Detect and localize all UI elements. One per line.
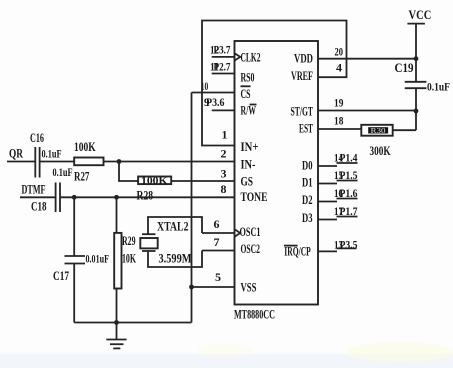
resistor R29 10K <box>114 233 136 289</box>
svg-text:GS: GS <box>241 174 254 189</box>
svg-text:3: 3 <box>221 167 227 181</box>
wire QR input to C16 <box>7 161 35 163</box>
node junction VSS <box>189 285 194 290</box>
wire C17 to ground rail <box>73 264 75 323</box>
wire RS0 stub P2.7 <box>212 73 235 75</box>
svg-text:CLK2: CLK2 <box>241 49 261 64</box>
svg-text:D2: D2 <box>302 192 313 207</box>
VCC power symbol <box>407 7 431 82</box>
svg-text:D1: D1 <box>302 175 313 190</box>
wire IN+ bias loop to VREF <box>202 21 347 146</box>
svg-text:C16: C16 <box>30 130 44 145</box>
wire D3 stub P1.7 <box>318 219 337 221</box>
node junction rail/ground <box>114 320 119 325</box>
svg-text:R28: R28 <box>137 188 154 203</box>
svg-text:OSC2: OSC2 <box>241 241 261 256</box>
svg-text:R29: R29 <box>122 233 136 248</box>
svg-text:D0: D0 <box>302 158 313 173</box>
wire DTMF input to C18 <box>20 196 56 198</box>
svg-text:EST: EST <box>299 121 313 136</box>
svg-text:CS: CS <box>241 86 251 101</box>
wire R30 to ST/GT vertical <box>393 129 416 131</box>
svg-text:19: 19 <box>334 96 343 110</box>
svg-text:7: 7 <box>214 235 220 249</box>
capacitor C18 <box>31 165 73 214</box>
op-amp U1 MT8880CC IC body <box>235 41 319 305</box>
wire IRQ/CP stub P3.5 <box>318 250 337 252</box>
wire R28 to GS pin 3 <box>171 180 234 182</box>
crystal XTAL2 3.599M <box>140 219 191 266</box>
svg-text:8: 8 <box>221 182 227 196</box>
svg-text:10K: 10K <box>122 251 137 266</box>
svg-text:0.1uF: 0.1uF <box>42 147 62 161</box>
svg-text:300K: 300K <box>370 143 392 158</box>
svg-text:P1.5: P1.5 <box>340 168 358 182</box>
wire C19 down to ST/GT node <box>415 88 417 130</box>
svg-text:OSC1: OSC1 <box>240 224 261 239</box>
svg-text:P3.7: P3.7 <box>214 43 231 57</box>
wire D1 stub P1.5 <box>318 183 337 185</box>
wire D2 stub P1.6 <box>318 201 337 203</box>
svg-text:100K: 100K <box>141 176 168 187</box>
wire VDD pin 20 to VCC <box>318 58 416 60</box>
svg-text:5: 5 <box>215 270 221 284</box>
svg-text:TONE: TONE <box>241 189 268 204</box>
ground <box>106 323 126 349</box>
wire R/W stub P3.6 <box>212 109 235 111</box>
svg-text:R27: R27 <box>74 169 90 184</box>
node junction VDD/VCC <box>414 56 419 61</box>
svg-text:P1.4: P1.4 <box>340 151 358 165</box>
svg-text:MT8880CC: MT8880CC <box>234 307 275 322</box>
node junction IN-/R28 <box>117 159 122 164</box>
svg-text:0.1uF: 0.1uF <box>53 165 73 179</box>
wire EST pin 18 to R30 <box>318 128 361 130</box>
svg-text:P1.7: P1.7 <box>340 204 358 218</box>
svg-text:XTAL2: XTAL2 <box>157 219 189 234</box>
node junction TONE/C17 <box>72 195 77 200</box>
svg-text:6: 6 <box>214 217 220 231</box>
svg-text:DTMF: DTMF <box>22 182 46 197</box>
wire D0 stub P1.4 <box>318 165 337 167</box>
svg-text:D3: D3 <box>302 210 313 225</box>
wire C18 to TONE pin 8 <box>60 196 235 198</box>
svg-text:RS0: RS0 <box>241 70 255 85</box>
wire XTAL bottom loop to OSC2 <box>148 251 202 268</box>
clock chevron CLK2 <box>235 53 241 60</box>
wire VSS pin 5 <box>192 286 235 288</box>
svg-text:P3.5: P3.5 <box>340 237 358 251</box>
svg-text:C17: C17 <box>53 268 69 283</box>
wire R29 to ground rail <box>116 289 118 323</box>
svg-text:P2.7: P2.7 <box>214 60 231 74</box>
svg-text:18: 18 <box>334 114 343 128</box>
wire CS pin 10 to ground vertical <box>192 92 235 94</box>
svg-text:ST/GT: ST/GT <box>291 104 314 119</box>
svg-text:2: 2 <box>221 147 227 161</box>
resistor R30 300K <box>361 125 392 158</box>
wire CLK2 stub P3.7 <box>212 56 235 58</box>
svg-text:100K: 100K <box>74 139 96 154</box>
svg-text:0.1uF: 0.1uF <box>427 80 450 94</box>
svg-text:VREF: VREF <box>291 68 313 83</box>
wire ground rail <box>74 322 191 324</box>
svg-text:VSS: VSS <box>241 280 257 295</box>
svg-text:1: 1 <box>222 128 228 142</box>
svg-text:QR: QR <box>9 146 23 161</box>
svg-text:C18: C18 <box>31 199 47 214</box>
resistor R27 100K <box>74 139 104 184</box>
svg-text:VCC: VCC <box>409 7 432 22</box>
wire R29 branch down <box>116 197 118 233</box>
svg-text:IN-: IN- <box>241 156 256 171</box>
wire OSC2 pin 7 <box>202 250 235 252</box>
svg-text:IN+: IN+ <box>241 139 259 154</box>
capacitor C16 <box>30 130 62 178</box>
node junction TONE/R29 <box>114 195 119 200</box>
wire C16 to R27 <box>40 161 75 163</box>
wire ST/GT pin 19 <box>318 110 416 112</box>
svg-text:0.01uF: 0.01uF <box>86 252 110 266</box>
capacitor C17 <box>53 252 109 284</box>
wire XTAL top loop to OSC1 <box>148 217 202 234</box>
wire OSC1 pin 6 <box>202 232 235 234</box>
svg-text:4: 4 <box>336 61 342 75</box>
node junction ST/GT <box>414 109 419 114</box>
svg-text:P3.6: P3.6 <box>206 95 225 109</box>
wire CS/VSS ground vertical <box>191 93 193 323</box>
wire C17 branch down <box>73 197 75 256</box>
wire R27 to IN- pin 2 <box>104 161 235 163</box>
svg-text:P1.6: P1.6 <box>340 186 358 200</box>
svg-text:R30: R30 <box>371 127 387 135</box>
wire IN- junction down to R28 <box>119 162 138 182</box>
clock chevron OSC1 <box>235 229 241 236</box>
capacitor C19 <box>395 60 451 94</box>
svg-text:C19: C19 <box>395 60 414 75</box>
resistor R28 100K <box>137 176 172 203</box>
svg-text:VDD: VDD <box>294 51 313 66</box>
svg-text:3.599M: 3.599M <box>159 251 192 266</box>
svg-text:20: 20 <box>335 45 344 59</box>
